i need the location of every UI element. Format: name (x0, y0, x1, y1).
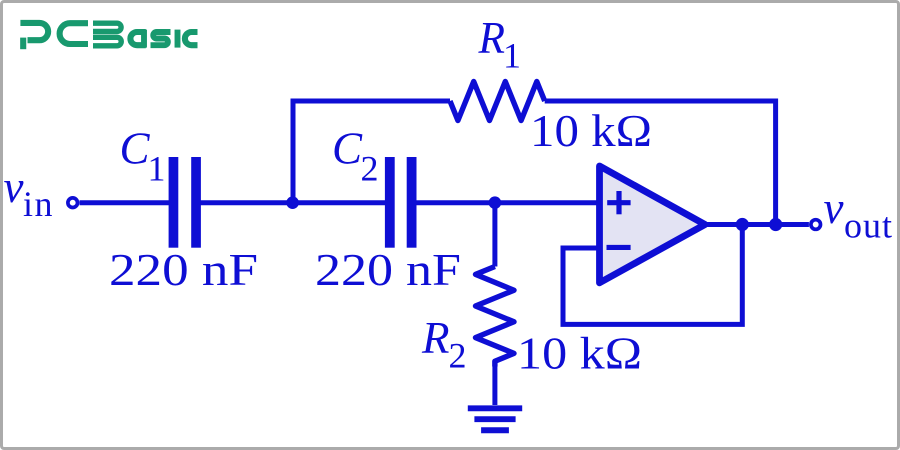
label vin (4, 162, 53, 224)
svg-text:220 nF: 220 nF (315, 244, 461, 295)
resistor R2 (476, 267, 515, 367)
svg-text:out: out (844, 206, 892, 246)
wire top rail right (545, 101, 776, 224)
svg-text:10 kΩ: 10 kΩ (530, 105, 652, 156)
wire feedback loop (563, 225, 742, 325)
resistor R1 (450, 82, 545, 121)
capacitor C2 (385, 157, 417, 248)
terminal vin (68, 198, 78, 208)
wire input (80, 200, 170, 205)
op-amp minus input sign (607, 245, 631, 250)
wire C1 to C2 (200, 200, 386, 205)
output junction dot 2 (769, 218, 782, 231)
wire node A up (291, 101, 296, 203)
svg-text:C: C (120, 124, 151, 174)
svg-text:v: v (824, 183, 844, 233)
capacitor C1 (169, 157, 201, 248)
svg-text:in: in (23, 184, 53, 224)
svg-text:2: 2 (449, 336, 467, 376)
label C2 (332, 124, 379, 189)
label C1 (120, 124, 166, 189)
svg-text:10 kΩ: 10 kΩ (517, 328, 642, 379)
svg-text:C: C (332, 124, 363, 174)
op-amp U1 (600, 166, 706, 283)
ground (468, 408, 522, 430)
wire top rail left (291, 99, 451, 104)
label R1 (478, 13, 521, 76)
svg-text:v: v (4, 162, 24, 212)
label R2 (421, 313, 467, 376)
terminal vout (811, 220, 821, 230)
logo PCBasic (20, 23, 197, 49)
svg-text:R: R (421, 313, 450, 363)
svg-text:2: 2 (361, 149, 379, 189)
svg-text:R: R (478, 13, 505, 63)
svg-text:1: 1 (148, 149, 166, 189)
op-amp plus input sign (607, 191, 630, 214)
output junction dot 1 (736, 218, 749, 231)
wire C2 to opamp (416, 200, 598, 205)
wire R2 top (492, 203, 497, 267)
node B junction dot (489, 196, 502, 209)
wire opamp output (706, 222, 809, 227)
svg-text:1: 1 (503, 36, 521, 76)
label vout (824, 183, 893, 246)
wire R2 bottom (492, 361, 497, 405)
node A junction dot (286, 196, 299, 209)
svg-text:220 nF: 220 nF (109, 244, 258, 295)
